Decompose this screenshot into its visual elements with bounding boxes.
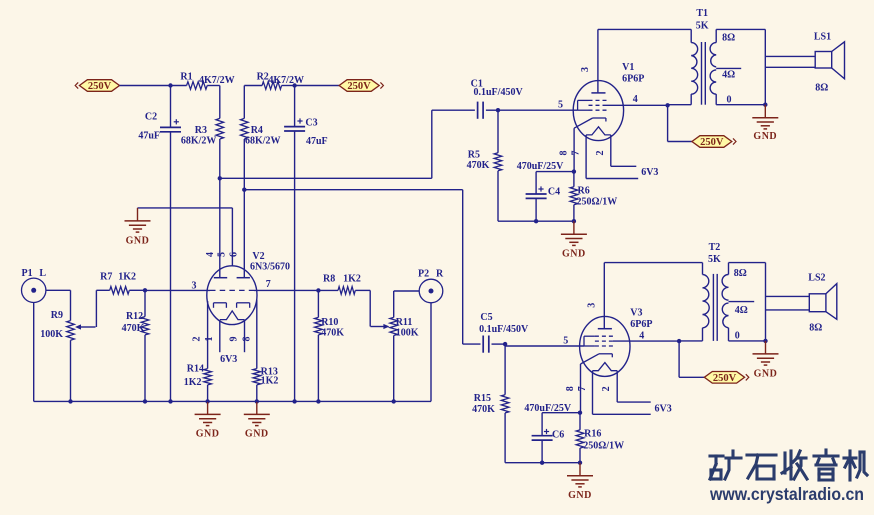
wire wiper riser R9 [95, 290, 97, 327]
V2 plate left [214, 277, 227, 279]
tube V3 envelope [580, 316, 630, 376]
svg-text:4Ω: 4Ω [735, 305, 748, 316]
watermark char yin [814, 450, 838, 480]
junction V1 cathode node [572, 169, 576, 173]
speaker LS1 [815, 42, 844, 79]
svg-text:47uF: 47uF [138, 131, 160, 142]
label R (input) [436, 269, 444, 280]
pin label 7 (V3) [577, 386, 588, 391]
junction node H (C5/R15) [503, 342, 507, 346]
svg-text:6V3: 6V3 [220, 354, 237, 365]
label R9 [51, 310, 63, 321]
wire R16 top lead [579, 413, 581, 430]
wire V1 pin3 to T1 primary [598, 28, 691, 30]
wire R3 to node B [219, 139, 221, 178]
value R13 1K2 [261, 376, 279, 387]
wire R6 top lead [573, 172, 575, 187]
svg-text:GND: GND [126, 235, 150, 246]
svg-text:250V: 250V [713, 373, 737, 384]
wire V3 pin3 plate lead [603, 263, 605, 329]
svg-text:GND: GND [754, 368, 778, 379]
wire riser node C to C5 [463, 190, 481, 344]
wire riser node B to C1 [432, 110, 475, 178]
label 0 (T1) [727, 95, 732, 106]
pin label 4 (V2) [205, 252, 216, 257]
pin label 5 (V1) [558, 99, 563, 110]
wire R2 left drop [244, 86, 262, 119]
svg-text:C4: C4 [548, 186, 560, 197]
junction R12/bus [143, 399, 147, 403]
svg-text:5K: 5K [708, 254, 721, 265]
pin label 1 (V2) [204, 337, 215, 342]
wire R15 bottom [504, 413, 506, 463]
transformer T1 secondary upper [710, 43, 716, 67]
wire R4 to node C [243, 139, 245, 190]
wire R9 top lead [70, 290, 72, 320]
value C6 470uF/25V [524, 403, 571, 414]
resistor R16 250R/1W [576, 430, 584, 448]
svg-text:R8: R8 [323, 274, 335, 285]
wire V1 pin3 plate lead [597, 29, 599, 92]
pin label 3 (V1) [580, 67, 591, 72]
wire LS2 bottom terminal [766, 309, 810, 311]
V1 heater [586, 127, 611, 135]
label R4 [251, 125, 263, 136]
wire ch2 bottom rail [505, 462, 580, 464]
svg-text:1K2: 1K2 [261, 376, 279, 387]
label P1 [22, 268, 33, 279]
wire V2 pin3 (grid left) [145, 289, 210, 291]
R9 wiper arrow [75, 324, 96, 329]
capacitor C6 lead [541, 413, 543, 436]
wire V1 pin7 heater lead [586, 135, 638, 179]
resistor R5 470K [494, 153, 502, 171]
svg-text:470K: 470K [472, 404, 495, 415]
value LS1 8ohm [815, 82, 828, 93]
wire R16 bottom lead [579, 448, 581, 463]
wire R10 top lead [317, 290, 319, 317]
svg-text:T2: T2 [709, 242, 721, 253]
label 4ohm (T1) [722, 70, 735, 81]
junction T1 sec 0 / gnd [763, 103, 767, 107]
ground symbol (V1 cathode) [561, 221, 587, 245]
svg-text:0.1uF/450V: 0.1uF/450V [479, 324, 529, 335]
svg-text:5K: 5K [696, 21, 709, 32]
label GND (R14) [196, 429, 220, 440]
label V1 [622, 62, 634, 73]
wire R8 to wiper riser [355, 289, 370, 291]
wire LS1 drop [764, 29, 766, 104]
label R6 [578, 186, 590, 197]
value V2 6N3/5670 [250, 261, 290, 272]
wire plate node to 250V port [668, 105, 692, 141]
power port 250V (V3 B+) [704, 372, 749, 385]
wire R7 to node E [129, 289, 145, 291]
wire R9 bottom to bus [70, 340, 72, 401]
wire V3 pin8 cathode lead [580, 364, 582, 413]
junction node A (R1/C2) [168, 83, 172, 87]
ground symbol (R13) [244, 401, 270, 425]
pin label 2 (V1) [595, 151, 606, 156]
svg-text:3: 3 [580, 67, 591, 72]
V3 grid row1 dashes [595, 335, 613, 337]
resistor R7 1K2 [110, 287, 130, 295]
svg-text:V3: V3 [630, 307, 642, 318]
label 4ohm (T2) [735, 305, 748, 316]
wire LS1 bottom terminal [765, 66, 815, 68]
wire plate node to 250V port (V3) [679, 341, 704, 377]
value R9 100K [40, 329, 63, 340]
svg-text:47uF: 47uF [306, 136, 328, 147]
svg-text:3: 3 [587, 303, 598, 308]
wire LS1 top terminal [765, 55, 815, 57]
svg-text:470K: 470K [321, 327, 344, 338]
pin label 8 (V3) [565, 386, 576, 391]
plus sign C3 [297, 118, 302, 123]
svg-text:8: 8 [565, 386, 576, 391]
svg-text:V2: V2 [252, 251, 264, 262]
wire C5 to node H [492, 343, 506, 345]
resistor R8 1K2 [338, 287, 355, 295]
svg-text:4: 4 [205, 252, 216, 257]
wire V2 pin1 heater [219, 320, 221, 352]
svg-text:6P6P: 6P6P [630, 319, 652, 330]
value R14 1K2 [184, 377, 202, 388]
svg-text:4: 4 [639, 330, 644, 341]
junction C3-line/bus [292, 399, 296, 403]
svg-text:6: 6 [229, 252, 240, 257]
V1 grid row2 dashes [589, 104, 607, 106]
wire V2 pin2 to R14 [207, 301, 209, 369]
pin label 4 (V3) [639, 330, 644, 341]
wire riser to R7 [96, 289, 109, 291]
junction node B (to C1 net) [218, 176, 222, 180]
label R11 [396, 317, 413, 328]
wire V3 pin2 heater lead [617, 371, 651, 402]
capacitor C2 47uF lead [170, 86, 172, 128]
label 0 (T2) [735, 331, 740, 342]
svg-text:0: 0 [735, 331, 740, 342]
svg-text:R6: R6 [578, 186, 590, 197]
svg-text:470K: 470K [467, 160, 490, 171]
svg-text:5: 5 [563, 335, 568, 346]
label R3 [195, 125, 207, 136]
svg-text:C3: C3 [305, 117, 317, 128]
svg-text:8Ω: 8Ω [809, 322, 822, 333]
svg-text:1: 1 [204, 337, 215, 342]
svg-text:V1: V1 [622, 62, 634, 73]
wire node A to R1 [171, 85, 187, 87]
wire V3 pin4 screen lead [613, 340, 679, 342]
wire C2-line to bus junction [168, 399, 172, 403]
svg-text:R14: R14 [187, 364, 204, 375]
V3 grid connector [584, 336, 595, 346]
ground symbol (R14) [195, 401, 221, 425]
ground symbol (T1 secondary) [752, 105, 778, 129]
wire R1 to R3 top [207, 86, 220, 119]
svg-text:4Ω: 4Ω [722, 70, 735, 81]
value R1 4K7/2W [199, 75, 235, 86]
watermark char ji [844, 451, 867, 480]
junction V3 plate node [677, 339, 681, 343]
junction node E (R7/R12) [143, 288, 147, 292]
svg-text:R11: R11 [396, 317, 413, 328]
label R14 [187, 364, 204, 375]
V3 grid row3 dashes [595, 345, 613, 347]
svg-text:9: 9 [229, 337, 240, 342]
wire T1 primary bottom to plate node [668, 104, 692, 106]
wire node H to V3 grid [505, 345, 584, 347]
svg-text:7: 7 [266, 279, 271, 290]
V1 grid connector [578, 100, 589, 110]
label C5 [480, 312, 492, 323]
wire R12 to bus [144, 335, 146, 402]
capacitor C2 47uF [160, 127, 181, 131]
value R12 470K [122, 323, 145, 334]
V2 cathode right [237, 303, 250, 308]
junction R14/bus [205, 399, 209, 403]
wire P1 down to bus [33, 303, 35, 402]
V1 grid row3 dashes [589, 109, 607, 111]
wire V2 pin6 (from node C) [243, 190, 245, 278]
svg-text:R9: R9 [51, 310, 63, 321]
V2 cathode left [214, 303, 227, 308]
label GND (T1 secondary) [753, 131, 777, 142]
svg-text:6V3: 6V3 [641, 167, 658, 178]
svg-text:2: 2 [601, 386, 612, 391]
value C5 0.1uF/450V [479, 324, 529, 335]
svg-text:4: 4 [633, 94, 638, 105]
svg-text:T1: T1 [696, 8, 708, 19]
wire R5 top lead [497, 110, 499, 153]
wire V1 pin2 heater lead [611, 135, 637, 166]
watermark char shi [747, 455, 776, 479]
svg-text:68K/2W: 68K/2W [181, 135, 217, 146]
wire node C to riser [244, 189, 462, 191]
label GND (V1 cathode) [562, 249, 586, 260]
label T1 [696, 8, 708, 19]
capacitor C5 0.1uF/450V [483, 336, 489, 353]
svg-text:1K2: 1K2 [343, 274, 361, 285]
wire T1 sec bottom [716, 94, 765, 105]
svg-text:0.1uF/450V: 0.1uF/450V [474, 87, 524, 98]
label C6 [552, 429, 564, 440]
svg-text:R15: R15 [474, 393, 491, 404]
wire R14 to bus [207, 385, 209, 402]
label R5 [468, 150, 480, 161]
svg-text:8Ω: 8Ω [734, 268, 747, 279]
label V2 [252, 251, 264, 262]
label C4 [548, 186, 560, 197]
svg-text:7: 7 [577, 386, 588, 391]
R11 wiper arrow [370, 324, 389, 329]
label GND (R13) [245, 429, 269, 440]
V3 plate bar [598, 328, 612, 330]
junction node D (R2/C3) [292, 83, 296, 87]
svg-text:8Ω: 8Ω [815, 82, 828, 93]
value R4 68K/2W [245, 135, 281, 146]
svg-text:GND: GND [196, 429, 220, 440]
V3 grid row2 dashes [595, 340, 613, 342]
svg-text:L: L [39, 268, 46, 279]
svg-text:4K7/2W: 4K7/2W [199, 75, 235, 86]
V2 heater [220, 311, 245, 320]
label C2 [145, 111, 157, 122]
wire C1 to node G [486, 109, 498, 111]
svg-text:R12: R12 [126, 311, 143, 322]
plus sign C2 [174, 119, 179, 124]
wire node G to V1 grid [498, 109, 578, 111]
wire C4 bottom [535, 198, 537, 221]
resistor R12 470K [141, 317, 149, 335]
svg-text:8: 8 [241, 337, 252, 342]
wire R15 top lead [504, 344, 506, 395]
V1 grid row1 dashes [589, 99, 607, 101]
wire T2 sec top [729, 263, 766, 275]
plus sign C4 [538, 186, 543, 191]
value R2 4K7/2W [268, 75, 304, 86]
svg-text:68K/2W: 68K/2W [245, 135, 281, 146]
svg-text:C5: C5 [480, 312, 492, 323]
svg-text:GND: GND [753, 131, 777, 142]
resistor R6 250R/1W [570, 187, 578, 205]
label GND (V3 cathode) [568, 490, 592, 501]
bottom ground bus [34, 400, 431, 402]
value R16 250/1W [583, 440, 624, 451]
wire P2 down to bus [430, 303, 432, 402]
wire V2 pin9 heater [244, 320, 246, 352]
op-amp U none; tube V2 envelope [207, 266, 257, 325]
label R12 [126, 311, 143, 322]
junction R9/bus [68, 399, 72, 403]
resistor R13 1K2 [253, 369, 261, 385]
wire wiper riser R11 [369, 290, 371, 326]
V3 cathode [581, 354, 613, 364]
connector P1 (L input) [22, 278, 46, 302]
connector P2 (R input) [419, 279, 443, 303]
wire V1 pin4 screen lead [607, 104, 668, 106]
label R8 [323, 274, 335, 285]
value R10 470K [321, 327, 344, 338]
label R16 [584, 429, 601, 440]
wire node F to R8 [318, 289, 338, 291]
capacitor C6 470uF/25V [532, 436, 553, 440]
pin label 3 (V2) [192, 281, 197, 292]
wire P1 to R9 [46, 289, 71, 291]
value V3 6P6P [630, 319, 652, 330]
wire R5 bottom [498, 171, 536, 221]
value R8 1K2 [343, 274, 361, 285]
label LS2 [808, 273, 825, 284]
wire R12 top lead [144, 290, 146, 316]
junction V3 cathode node [578, 411, 582, 415]
svg-text:470K: 470K [122, 323, 145, 334]
resistor R3 68K/2W [216, 118, 224, 139]
wire V3 pin3 to T2 primary [604, 262, 702, 264]
label GND (T2 secondary) [754, 368, 778, 379]
pin label 8 (V2) [241, 337, 252, 342]
V1 cathode [574, 118, 606, 128]
wire T1 4ohm tap [716, 67, 741, 69]
capacitor C3 47uF lead [294, 86, 296, 127]
value C3 47uF [306, 136, 328, 147]
wire cathode rail top (V3) [542, 412, 580, 414]
power port 250V (right of R2) [339, 80, 383, 93]
junction R10/bus [316, 399, 320, 403]
svg-text:470uF/25V: 470uF/25V [524, 403, 571, 414]
svg-text:6N3/5670: 6N3/5670 [250, 261, 290, 272]
pin label 2 (V2) [191, 337, 202, 342]
junction R11/bus [392, 399, 396, 403]
junction node C (to C5 net) [242, 188, 246, 192]
ground symbol (V3 cathode) [567, 463, 593, 487]
tube V1 envelope [573, 81, 623, 141]
potentiometer R11 100K [390, 317, 398, 335]
svg-text:R1: R1 [180, 71, 192, 82]
wire R13 to bus [256, 385, 258, 402]
pin label 6 (V2) [229, 252, 240, 257]
wire node D to 250V [295, 85, 340, 87]
svg-text:3: 3 [192, 281, 197, 292]
svg-text:GND: GND [562, 249, 586, 260]
label 6V3 (V2 heater) [220, 354, 237, 365]
resistor R1 4K7/2W [187, 82, 208, 90]
label P2 [418, 269, 429, 280]
junction R13/bus [255, 399, 259, 403]
label L [39, 268, 46, 279]
transformer T2 secondary lower [722, 303, 728, 328]
wire V2 pin7 (grid right) [254, 289, 318, 291]
svg-text:1K2: 1K2 [184, 377, 202, 388]
junction C4/bottom rail [534, 219, 538, 223]
plus sign C6 [544, 429, 549, 434]
svg-text:7: 7 [571, 151, 582, 156]
svg-text:470uF/25V: 470uF/25V [517, 161, 564, 172]
label GND (C2 node) [126, 235, 150, 246]
svg-text:R: R [436, 269, 444, 280]
value R3 68K/2W [181, 135, 217, 146]
svg-text:C2: C2 [145, 111, 157, 122]
wire T2 primary bottom to plate node [679, 340, 702, 342]
wire V2 pin4 (from node B) [219, 178, 221, 277]
potentiometer R9 100K [67, 321, 75, 341]
wire T2 sec bottom [729, 328, 766, 341]
wire V2 pin8 to R13 [256, 300, 258, 369]
svg-text:250V: 250V [88, 81, 112, 92]
wire LS2 top terminal [766, 295, 810, 297]
svg-text:1K2: 1K2 [118, 272, 136, 283]
svg-text:www.crystalradio.cn: www.crystalradio.cn [709, 484, 864, 504]
svg-text:LS2: LS2 [808, 273, 825, 284]
transformer T1 primary [691, 29, 697, 104]
junction C4 top? none; capacitor C4 lead [535, 172, 537, 194]
wire R10 to bus [317, 335, 319, 402]
wire R11 top to P2 [394, 291, 420, 317]
pin label 7 (V1) [571, 151, 582, 156]
svg-text:100K: 100K [40, 329, 63, 340]
value R15 470K [472, 404, 495, 415]
transformer T2 core [713, 274, 717, 341]
transformer T1 secondary lower [710, 70, 716, 94]
svg-text:P1: P1 [22, 268, 33, 279]
watermark url www.crystalradio.cn [709, 484, 864, 504]
svg-text:4K7/2W: 4K7/2W [268, 75, 304, 86]
pin label 2 (V3) [601, 386, 612, 391]
pin label 5 (V3) [563, 335, 568, 346]
transformer T1 core [702, 42, 706, 105]
junction T2 sec 0 / gnd [763, 339, 767, 343]
svg-text:GND: GND [568, 490, 592, 501]
